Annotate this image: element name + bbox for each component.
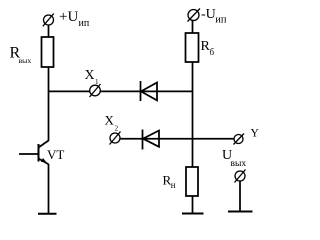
label Rн	[163, 173, 176, 191]
svg-text:б: б	[210, 47, 215, 57]
svg-text:н: н	[171, 180, 176, 190]
diode VD1	[141, 81, 158, 101]
label Rб	[201, 39, 215, 57]
label +Uип	[59, 9, 90, 29]
wire	[120, 138, 235, 140]
terminal -Uип	[188, 9, 201, 22]
resistor Rвых	[42, 37, 54, 67]
svg-text:1: 1	[95, 78, 99, 86]
label Uвых	[222, 148, 246, 169]
wire	[48, 25, 50, 37]
wire	[48, 67, 50, 141]
resistor Rб	[186, 33, 199, 62]
label Y	[251, 128, 260, 140]
svg-text:ип: ип	[215, 15, 227, 26]
label VT	[47, 147, 64, 162]
transistor VT	[19, 141, 49, 165]
label X1	[85, 68, 100, 86]
ground	[228, 211, 253, 213]
svg-text:-U: -U	[201, 7, 216, 22]
ground	[38, 213, 57, 215]
terminal X1	[90, 84, 101, 97]
svg-text:X: X	[85, 68, 95, 83]
svg-text:X: X	[105, 113, 115, 128]
svg-text:вых: вых	[19, 56, 32, 65]
wire	[192, 196, 194, 213]
ground	[182, 213, 204, 215]
terminal Y	[234, 134, 245, 145]
terminal X2	[110, 132, 121, 145]
wire	[239, 181, 241, 211]
resistor Rн	[186, 167, 198, 196]
svg-text:+U: +U	[59, 9, 78, 25]
svg-text:VT: VT	[47, 147, 64, 162]
terminal Uвых	[235, 170, 246, 183]
svg-text:Y: Y	[251, 128, 260, 140]
wire	[192, 21, 194, 34]
label X2	[105, 113, 119, 133]
diode VD2	[143, 130, 160, 150]
svg-text:вых: вых	[231, 159, 247, 169]
label Rвых	[10, 45, 32, 66]
wire	[192, 62, 194, 167]
label -Uип	[201, 7, 227, 26]
svg-text:2: 2	[115, 124, 119, 132]
wire	[49, 90, 193, 92]
terminal +Uип	[43, 14, 54, 27]
svg-text:ип: ип	[79, 18, 90, 29]
wire	[48, 164, 50, 214]
